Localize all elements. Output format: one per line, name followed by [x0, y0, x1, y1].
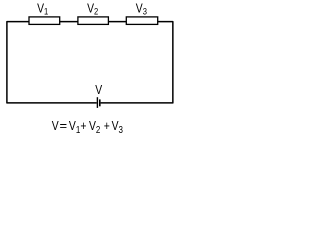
label V3 — [136, 1, 147, 16]
svg-text:=: = — [60, 118, 68, 133]
wire : outer circuit loop with gap for battery — [7, 22, 173, 103]
svg-text:V: V — [95, 83, 102, 97]
resistor R1 — [29, 17, 60, 25]
label V (battery) — [95, 83, 102, 97]
resistor R3 — [126, 17, 157, 25]
resistor R2 — [78, 17, 109, 25]
label V2 — [87, 1, 98, 16]
battery V : short plate — [99, 99, 101, 106]
label V1 — [37, 1, 48, 16]
battery V : long plate — [96, 97, 98, 108]
